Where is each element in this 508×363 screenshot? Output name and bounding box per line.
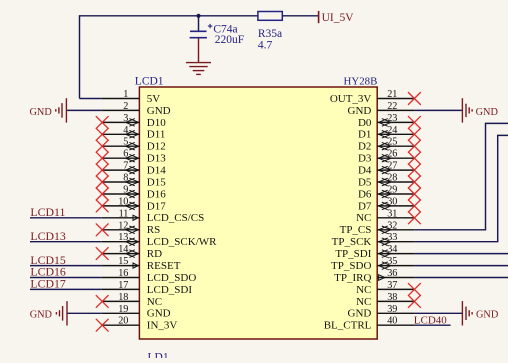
svg-text:D1: D1 [358, 129, 371, 141]
svg-text:LCD1: LCD1 [135, 76, 164, 88]
power port UI_5V (bar) [318, 11, 320, 23]
power GND symbol (pin2) [56, 98, 67, 122]
pin 6 D13 (left) [102, 157, 140, 159]
svg-text:32: 32 [387, 220, 397, 231]
svg-text:R35a: R35a [258, 28, 282, 40]
svg-text:UI_5V: UI_5V [322, 12, 355, 24]
svg-text:TP_IRQ: TP_IRQ [334, 272, 371, 284]
wire pin22 to GND [415, 109, 462, 111]
no-connect X pin 12 [96, 224, 108, 236]
svg-text:38: 38 [387, 292, 397, 303]
pin 4 D11 (left) [102, 133, 140, 135]
svg-text:21: 21 [387, 89, 397, 100]
svg-text:LCD_SDI: LCD_SDI [147, 284, 193, 296]
svg-text:RS: RS [147, 224, 160, 236]
no-connect X pin 23 [408, 116, 420, 128]
no-connect X pin 38 [408, 295, 420, 307]
svg-text:29: 29 [387, 185, 397, 196]
input arrow pin 11 [133, 215, 138, 220]
wire 5V rail from pin1 up and right to junction [80, 16, 199, 99]
svg-text:19: 19 [118, 304, 128, 315]
svg-text:30: 30 [387, 196, 397, 207]
pin 21 OUT_3V (right) [377, 98, 415, 100]
pin 5 D12 (left) [102, 145, 140, 147]
svg-text:17: 17 [118, 280, 128, 291]
I/O arrows pin 25 [379, 142, 392, 150]
wire pin33 TP_SCK to edge [415, 135, 508, 241]
wire pin19 to GND [67, 312, 102, 314]
svg-text:NC: NC [356, 212, 371, 224]
svg-text:27: 27 [387, 161, 397, 172]
I/O arrows pin 5 [126, 142, 139, 150]
no-connect X pin 25 [408, 140, 420, 152]
I/O arrows pin 8 [126, 178, 139, 186]
svg-text:D16: D16 [147, 188, 166, 200]
pin 16 LCD_SDO (left) [102, 277, 140, 279]
wire pin34 TP_SDI to edge [415, 253, 508, 255]
no-connect X pin 26 [408, 152, 420, 164]
pin 40 BL_CTRL (right) [377, 324, 415, 326]
power GND symbol (pin39) [462, 301, 472, 325]
svg-text:HY28B: HY28B [344, 76, 378, 88]
pin 3 D10 (left) [102, 121, 140, 123]
no-connect X pin 28 [408, 176, 420, 188]
pin 17 LCD_SDI (left) [102, 288, 140, 290]
I/O arrows pin 30 [379, 202, 392, 210]
svg-text:39: 39 [387, 304, 397, 315]
svg-text:28: 28 [387, 173, 397, 184]
pin 13 LCD_SCK/WR (left) [102, 241, 140, 243]
capacitor C74a 220uF [190, 16, 213, 38]
I/O arrows pin 26 [379, 154, 392, 162]
pin 28 D5 (right) [377, 181, 415, 183]
svg-text:NC: NC [356, 284, 371, 296]
svg-text:37: 37 [387, 280, 397, 291]
svg-text:LCD_SCK/WR: LCD_SCK/WR [147, 236, 217, 248]
svg-text:GND: GND [476, 310, 499, 321]
svg-text:BL_CTRL: BL_CTRL [324, 320, 372, 332]
svg-text:35: 35 [387, 256, 397, 267]
svg-text:D12: D12 [147, 141, 166, 153]
power GND symbol (pin22) [462, 98, 472, 122]
svg-text:D4: D4 [358, 165, 372, 177]
svg-text:23: 23 [387, 113, 397, 124]
I/O arrows pin 35 [379, 262, 392, 270]
svg-text:LCD17: LCD17 [30, 277, 65, 291]
I/O arrows pin 9 [126, 190, 139, 198]
svg-text:D5: D5 [358, 176, 372, 188]
svg-text:GND: GND [147, 105, 171, 117]
pin 9 D16 (left) [102, 193, 140, 195]
svg-text:LCD13: LCD13 [30, 229, 65, 243]
pin 14 RD (left) [102, 253, 140, 255]
wire pin1 to vertical rail [80, 98, 102, 100]
pin 30 D7 (right) [377, 205, 415, 207]
pin 29 D6 (right) [377, 193, 415, 195]
no-connect X pin 30 [408, 200, 420, 212]
pin 1 5V (left) [102, 98, 140, 100]
I/O arrows pin 14 [126, 250, 139, 258]
wire pin40 to net label LCD40 [415, 324, 451, 326]
pin 15 RESET (left) [102, 265, 140, 267]
I/O arrows pin 23 [379, 119, 392, 127]
no-connect X pin 27 [408, 164, 420, 176]
pin 27 D4 (right) [377, 169, 415, 171]
pin 37 NC (right) [377, 288, 415, 290]
svg-text:D14: D14 [147, 165, 166, 177]
svg-text:40: 40 [387, 316, 397, 327]
I/O arrows pin 13 [126, 238, 139, 246]
power GND symbol (pin19) [56, 301, 67, 325]
no-connect X pin 37 [408, 283, 420, 295]
wire pin35 TP_SDO to edge [415, 265, 508, 267]
pin 33 TP_SCK (right) [377, 241, 415, 243]
I/O arrows pin 12 [126, 226, 139, 234]
pin 35 TP_SDO (right) [377, 265, 415, 267]
svg-text:16: 16 [118, 268, 128, 279]
no-connect X pin 29 [408, 188, 420, 200]
I/O arrows pin 10 [126, 202, 139, 210]
no-connect X pin 9 [96, 188, 108, 200]
wire pin39 to GND [415, 312, 462, 314]
svg-text:OUT_3V: OUT_3V [330, 93, 372, 105]
I/O arrows pin 34 [379, 250, 392, 258]
svg-text:LCD_CS/CS: LCD_CS/CS [147, 212, 204, 224]
resistor R35a 4.7 [258, 12, 282, 21]
svg-text:LCD_SDO: LCD_SDO [147, 272, 197, 284]
no-connect X pin 5 [96, 140, 108, 152]
wire pin15 to net label LCD15 [30, 265, 102, 267]
wire pin11 to net label LCD11 [30, 217, 102, 219]
pin 10 D17 (left) [102, 205, 140, 207]
pin 18 NC (left) [102, 300, 140, 302]
svg-text:GND: GND [30, 310, 53, 321]
pin 34 TP_SDI (right) [377, 253, 415, 255]
node junction at C74a [196, 14, 200, 18]
wire pin32 TP_CS to edge [415, 123, 508, 229]
svg-text:D3: D3 [358, 153, 372, 165]
svg-text:D7: D7 [358, 200, 372, 212]
I/O arrows pin 33 [379, 238, 392, 246]
svg-text:4.7: 4.7 [258, 40, 273, 52]
no-connect X pin 21 [408, 93, 420, 105]
svg-text:31: 31 [387, 208, 397, 219]
no-connect X pin 6 [96, 152, 108, 164]
svg-text:RD: RD [147, 248, 162, 260]
svg-text:24: 24 [387, 125, 397, 136]
output arrow pin 36 [379, 275, 385, 281]
svg-text:D15: D15 [147, 176, 166, 188]
svg-text:25: 25 [387, 137, 397, 148]
wire pin13 to net label LCD13 [30, 241, 102, 243]
pin 20 IN_3V (left) [102, 324, 140, 326]
wire junction to resistor R35a [199, 15, 258, 17]
no-connect X pin 4 [96, 128, 108, 140]
svg-text:D11: D11 [147, 129, 166, 141]
pin 8 D15 (left) [102, 181, 140, 183]
input arrow pin 15 [133, 263, 138, 268]
wire resistor to UI_5V [282, 15, 318, 17]
pin 39 GND (right) [377, 312, 415, 314]
svg-text:LCD40: LCD40 [414, 315, 448, 327]
svg-text:GND: GND [348, 308, 372, 320]
ground (earth) under C74a [186, 63, 211, 75]
svg-text:GND: GND [476, 107, 499, 118]
svg-text:TP_SCK: TP_SCK [332, 236, 372, 248]
svg-text:D2: D2 [358, 141, 371, 153]
pin 26 D3 (right) [377, 157, 415, 159]
pin 22 GND (right) [377, 109, 415, 111]
svg-text:LCD11: LCD11 [30, 205, 65, 219]
svg-text:D17: D17 [147, 200, 166, 212]
svg-text:NC: NC [147, 296, 162, 308]
I/O arrows pin 28 [379, 178, 392, 186]
svg-text:22: 22 [387, 101, 397, 112]
no-connect X pin 3 [96, 116, 108, 128]
no-connect X pin 18 [96, 295, 108, 307]
svg-text:26: 26 [387, 149, 397, 160]
I/O arrows pin 24 [379, 131, 392, 139]
I/O arrows pin 32 [379, 226, 392, 234]
no-connect X pin 31 [408, 212, 420, 224]
svg-text:18: 18 [118, 292, 128, 303]
pin 23 D0 (right) [377, 121, 415, 123]
no-connect X pin 10 [96, 200, 108, 212]
pin 12 RS (left) [102, 229, 140, 231]
svg-text:5V: 5V [147, 93, 161, 105]
wire cap to ground [198, 38, 200, 63]
wire pin36 TP_IRQ to edge [415, 277, 508, 279]
IC LCD1 (HY28B LCD module) body [139, 87, 377, 339]
no-connect X pin 7 [96, 164, 108, 176]
no-connect X pin 8 [96, 176, 108, 188]
svg-text:IN_3V: IN_3V [147, 320, 178, 332]
no-connect X pin 24 [408, 128, 420, 140]
svg-text:D13: D13 [147, 153, 166, 165]
wire pin17 to net label LCD17 [30, 288, 102, 290]
I/O arrows pin 6 [126, 154, 139, 162]
I/O arrows pin 4 [126, 131, 139, 139]
svg-text:36: 36 [387, 268, 397, 279]
svg-text:GND: GND [348, 105, 372, 117]
pin 7 D14 (left) [102, 169, 140, 171]
svg-text:34: 34 [387, 244, 397, 255]
svg-text:TP_CS: TP_CS [340, 224, 372, 236]
svg-text:D6: D6 [358, 188, 372, 200]
I/O arrows pin 27 [379, 166, 392, 174]
svg-text:NC: NC [356, 296, 371, 308]
wire pin16 to net label LCD16 [30, 277, 102, 279]
no-connect X pin 14 [96, 248, 108, 260]
svg-text:GND: GND [30, 107, 53, 118]
pin 19 GND (left) [102, 312, 140, 314]
pin 25 D2 (right) [377, 145, 415, 147]
pin 24 D1 (right) [377, 133, 415, 135]
pin 38 NC (right) [377, 300, 415, 302]
svg-text:TP_SDO: TP_SDO [331, 260, 371, 272]
svg-text:D10: D10 [147, 117, 166, 129]
I/O arrows pin 29 [379, 190, 392, 198]
svg-text:TP_SDI: TP_SDI [335, 248, 371, 260]
svg-text:GND: GND [147, 308, 171, 320]
I/O arrows pin 7 [126, 166, 139, 174]
svg-text:11: 11 [119, 208, 129, 219]
pin 36 TP_IRQ (right) [377, 277, 415, 279]
svg-text:15: 15 [118, 256, 128, 267]
svg-text:20: 20 [118, 316, 128, 327]
svg-text:D0: D0 [358, 117, 372, 129]
pin 11 LCD_CS/CS (left) [102, 217, 140, 219]
svg-text:33: 33 [387, 232, 397, 243]
I/O arrows pin 3 [126, 119, 139, 127]
pin 2 GND (left) [102, 109, 140, 111]
svg-text:1: 1 [123, 89, 128, 100]
svg-text:RESET: RESET [147, 260, 181, 272]
pin 31 NC (right) [377, 217, 415, 219]
svg-text:220uF: 220uF [215, 34, 244, 46]
pin 32 TP_CS (right) [377, 229, 415, 231]
no-connect X pin 20 [96, 319, 108, 331]
svg-text:2: 2 [123, 101, 128, 112]
svg-text:LD1: LD1 [148, 351, 169, 358]
wire pin2 to GND [66, 109, 101, 111]
